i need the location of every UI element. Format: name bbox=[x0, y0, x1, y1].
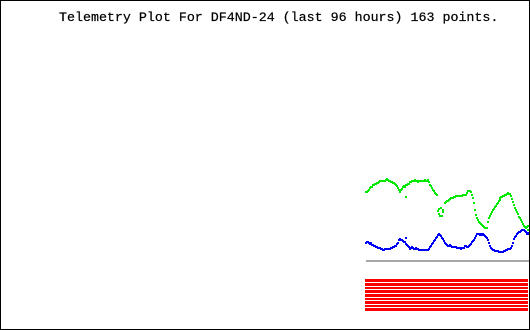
svg-text:Telemetry Plot For DF4ND-24 (l: Telemetry Plot For DF4ND-24 (last 96 hou… bbox=[59, 10, 498, 25]
